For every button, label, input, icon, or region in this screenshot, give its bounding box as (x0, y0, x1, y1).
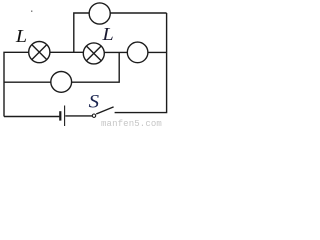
lamp lower (plain circle) (51, 72, 72, 93)
wire lamp L1 to lamp L2 (50, 51, 84, 53)
wire top right horizontal (110, 12, 166, 14)
lamp top (plain circle) (89, 3, 110, 24)
speck dot (31, 11, 32, 12)
switch S (92, 107, 113, 118)
lamp right (plain circle) (127, 42, 148, 63)
svg-text:L: L (101, 25, 113, 44)
wire lower lamp to left vertical (4, 81, 51, 83)
battery B1 (60, 106, 64, 127)
wire switch to bottom-right corner and right vertical (115, 13, 167, 113)
lamp L1 (29, 42, 50, 63)
svg-text:manfen5.com: manfen5.com (101, 119, 162, 127)
wire right lamp to right vertical (148, 51, 167, 53)
wire lamp L2 to right lamp (104, 51, 127, 53)
wire top left horizontal and down to junction A (74, 13, 89, 52)
wire left side: row to bottom-left corner (4, 52, 29, 116)
wire bottom left to battery (4, 116, 59, 118)
svg-text:S: S (89, 91, 99, 112)
wire battery to switch (65, 115, 92, 117)
lamp L2 (83, 43, 104, 64)
svg-text:L: L (15, 27, 27, 46)
wire junction B down and left to lower lamp (72, 52, 120, 82)
